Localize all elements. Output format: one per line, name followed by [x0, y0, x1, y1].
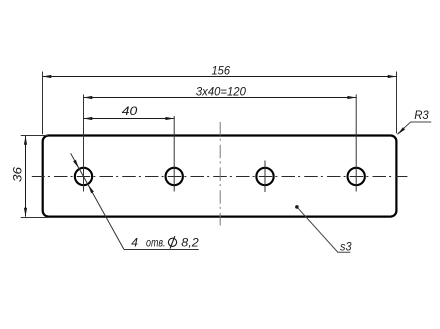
arrow R3	[398, 127, 405, 134]
extension line right (156)	[396, 72, 398, 134]
hole 1 vertical center mark / extension line	[83, 95, 85, 192]
dimension line 40	[84, 118, 175, 120]
leader R3	[397, 122, 431, 134]
arrow 156 left	[43, 75, 52, 78]
extension line 36 bottom	[21, 217, 48, 219]
plate outline	[43, 136, 397, 217]
svg-text:40: 40	[122, 104, 138, 118]
svg-text:8,2: 8,2	[181, 235, 199, 249]
svg-text:s3: s3	[340, 239, 352, 253]
dimension line 156	[43, 76, 397, 78]
svg-text:4: 4	[131, 235, 138, 249]
extension line left (156)	[42, 72, 44, 135]
hole 1	[75, 168, 92, 185]
hole 3	[256, 168, 273, 185]
hole 4 vertical center mark / extension line	[355, 95, 357, 192]
leader s3 dot	[295, 205, 299, 209]
svg-text:отв.: отв.	[146, 235, 166, 249]
svg-text:R3: R3	[414, 108, 429, 122]
hole 2	[166, 168, 183, 185]
hole 2 vertical center mark / extension line	[173, 116, 175, 192]
dimension line 3x40=120	[84, 97, 357, 99]
hole callout diameter line	[71, 153, 124, 249]
leader s3	[297, 207, 351, 252]
arrow 40 left	[84, 117, 93, 120]
arrow 156 right	[388, 75, 397, 78]
hole 4	[348, 168, 365, 185]
svg-text:3x40=120: 3x40=120	[196, 85, 246, 99]
hole callout shelf	[124, 249, 199, 251]
hole callout arrow upper	[73, 160, 79, 168]
extension line 36 top	[21, 135, 48, 137]
arrow 40 right	[165, 117, 174, 120]
svg-text:36: 36	[11, 167, 25, 182]
hole callout arrow lower	[88, 185, 94, 193]
vertical centerline	[219, 122, 221, 226]
diameter symbol	[168, 236, 176, 249]
hole 3 vertical center mark	[264, 161, 266, 193]
arrow 36 top	[24, 136, 27, 145]
arrow 3x40 left	[84, 96, 93, 99]
arrow 3x40 right	[347, 96, 356, 99]
horizontal centerline	[32, 176, 408, 178]
svg-text:156: 156	[212, 63, 231, 77]
dimension line 36	[25, 136, 27, 217]
arrow 36 bottom	[24, 208, 27, 217]
